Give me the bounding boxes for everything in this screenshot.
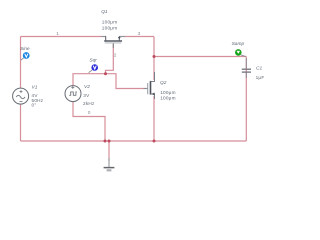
svg-text:2: 2 xyxy=(114,52,117,58)
wire net3 branch to C1 xyxy=(154,56,246,58)
capacitor C1 xyxy=(242,58,251,78)
svg-text:Samp: Samp xyxy=(232,41,245,47)
svg-text:2kHz: 2kHz xyxy=(83,101,95,106)
svg-text:1μF: 1μF xyxy=(256,75,265,80)
probe Sqr xyxy=(89,64,98,72)
junction node Q2-source xyxy=(153,140,156,143)
svg-text:Q1: Q1 xyxy=(101,9,108,15)
svg-text:100μm: 100μm xyxy=(102,26,118,31)
svg-text:V2: V2 xyxy=(84,84,90,90)
wire net1 top horizontal left xyxy=(21,36,107,38)
wire net2 to Q2 gate xyxy=(106,74,148,89)
source V1 xyxy=(13,88,29,104)
wire net0 bottom horizontal xyxy=(21,140,247,142)
transistor Q1 xyxy=(101,36,126,48)
svg-text:V1: V1 xyxy=(32,85,38,91)
svg-text:100μm: 100μm xyxy=(160,90,176,95)
svg-text:3V: 3V xyxy=(83,93,90,98)
svg-text:Sine: Sine xyxy=(20,46,30,52)
probe Sine xyxy=(21,52,30,60)
ground xyxy=(104,158,115,171)
probe Samp xyxy=(235,49,246,56)
svg-text:1: 1 xyxy=(56,31,59,37)
wire net1 left vertical xyxy=(20,37,22,142)
junction node net3 xyxy=(153,55,156,58)
wire V2 bottom lead xyxy=(73,102,105,142)
svg-text:0: 0 xyxy=(88,110,91,116)
svg-text:Sqr: Sqr xyxy=(89,58,97,64)
svg-text:100μm: 100μm xyxy=(160,96,176,101)
svg-text:4V: 4V xyxy=(32,93,39,98)
svg-text:3: 3 xyxy=(138,31,141,37)
wire Q1 gate down xyxy=(106,44,114,74)
wire C1 right vertical xyxy=(245,57,247,142)
svg-text:Q2: Q2 xyxy=(160,80,167,86)
junction node ground xyxy=(108,140,111,143)
transistor Q2 xyxy=(144,72,155,99)
wire V2 top lead xyxy=(73,74,106,86)
junction node net2 xyxy=(104,72,107,75)
svg-text:0°: 0° xyxy=(32,103,37,108)
wire net3 vertical to Q2 drain xyxy=(153,37,155,81)
junction node V2-bottom xyxy=(104,140,107,143)
source V2 xyxy=(65,86,81,102)
wire net3 top horizontal right of Q1 xyxy=(120,36,155,38)
wire ground stub xyxy=(108,141,110,161)
svg-text:100μm: 100μm xyxy=(102,20,118,25)
svg-text:C1: C1 xyxy=(256,65,262,71)
wire Q2 source to bottom xyxy=(153,96,155,141)
